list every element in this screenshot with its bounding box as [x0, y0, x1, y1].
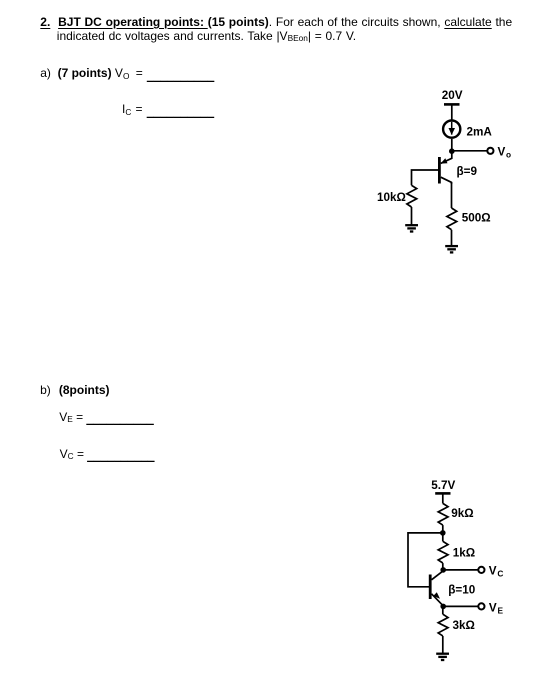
resistor R3 9k	[438, 503, 448, 525]
wire 1k to node Vc	[442, 563, 444, 570]
svg-text:β=9: β=9	[457, 165, 478, 178]
ground (collector resistor)	[445, 246, 458, 252]
wire node A to 1k	[442, 533, 444, 541]
supply 5.7V bar	[435, 492, 450, 495]
svg-text:20V: 20V	[442, 89, 463, 102]
svg-text:500Ω: 500Ω	[462, 211, 491, 224]
part a prompt	[40, 67, 51, 81]
svg-text:2mA: 2mA	[467, 125, 493, 138]
problem statement line 2	[57, 30, 356, 44]
wire node Vc to terminal	[443, 569, 478, 571]
wire 9k to node A	[442, 525, 444, 533]
wire collector to 500	[451, 182, 453, 208]
wire 500 to ground	[451, 230, 453, 246]
wire base to 10k	[412, 170, 439, 185]
part b prompt	[40, 384, 51, 398]
wire node Ve to 3k	[442, 606, 444, 614]
ground (emitter resistor)	[436, 654, 449, 660]
wire node Ve to terminal	[443, 605, 478, 607]
transistor Q1 PNP	[439, 151, 451, 184]
node Vo junction dot	[449, 148, 455, 154]
svg-text:o: o	[506, 149, 511, 159]
resistor R5 3k	[438, 614, 448, 636]
label Vo	[498, 146, 512, 160]
svg-text:β=10: β=10	[448, 584, 475, 597]
terminal Ve open circle	[478, 603, 484, 609]
wire supply to 9k	[442, 493, 444, 503]
svg-text:3kΩ: 3kΩ	[453, 619, 475, 632]
label Ve	[489, 601, 504, 615]
resistor R2 500	[447, 208, 457, 230]
svg-text:10kΩ: 10kΩ	[377, 191, 406, 204]
wire current source to node Vo	[451, 139, 453, 152]
svg-text:C: C	[497, 569, 503, 579]
wire node to Vo terminal	[452, 150, 488, 152]
feedback wire node A to base	[408, 533, 443, 587]
part a Ic blank	[122, 103, 214, 117]
supply 20V bar	[444, 103, 460, 106]
svg-text:E: E	[498, 605, 504, 615]
node Vc junction dot	[440, 567, 446, 573]
resistor R4 1k	[438, 541, 448, 563]
current source I1 2mA	[443, 121, 460, 138]
svg-text:1kΩ: 1kΩ	[453, 546, 475, 559]
wire 3k to ground	[442, 636, 444, 653]
svg-text:5.7V: 5.7V	[431, 479, 455, 492]
node Ve junction dot	[440, 604, 446, 610]
node A junction dot	[440, 530, 446, 536]
svg-text:V: V	[489, 601, 497, 614]
label Vc	[489, 565, 504, 579]
ground (base resistor)	[405, 225, 418, 231]
transistor Q2 NPN	[430, 571, 443, 606]
svg-text:V: V	[489, 565, 497, 578]
svg-text:V: V	[498, 146, 506, 159]
wire 10k to ground	[411, 207, 413, 225]
problem statement line 1	[40, 16, 512, 30]
svg-text:9kΩ: 9kΩ	[451, 507, 473, 520]
terminal Vo open circle	[487, 148, 493, 154]
resistor R1 10k	[407, 185, 417, 207]
terminal Vc open circle	[478, 567, 484, 573]
wire supply to current source	[451, 104, 453, 120]
